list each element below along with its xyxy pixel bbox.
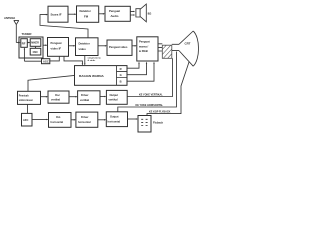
svg-text:TUNER: TUNER [22, 32, 33, 36]
wires audio amp to speaker [130, 11, 134, 15]
wire tuner to video IF amp [43, 44, 46, 46]
svg-text:Flyback: Flyback [153, 121, 164, 125]
wire v-driver to v-output [100, 96, 105, 98]
speaker [136, 4, 146, 22]
svg-text:Penguat: Penguat [109, 9, 120, 13]
horizontal oscillator box [49, 113, 72, 128]
svg-text:BAGIAN WARNA: BAGIAN WARNA [79, 74, 105, 78]
svg-text:& sinkr.: & sinkr. [88, 60, 96, 62]
svg-text:FM: FM [84, 14, 89, 18]
svg-text:vertikal: vertikal [80, 98, 89, 102]
wire RF to mixer [27, 42, 29, 44]
vertical oscillator box [48, 91, 69, 103]
svg-text:R: R [120, 67, 122, 71]
svg-text:Detektor: Detektor [79, 42, 91, 46]
video detector box [76, 38, 99, 56]
wire h-osc to h-driver [71, 119, 75, 121]
osc box [30, 48, 41, 55]
wire AGC to tuner [24, 60, 41, 62]
svg-text:KE YOKE VERTIKAL: KE YOKE VERTIKAL [139, 94, 163, 97]
svg-text:OSC: OSC [33, 51, 39, 54]
wire video detector to colour section [84, 56, 86, 65]
svg-text:& RGB: & RGB [139, 49, 148, 53]
svg-text:KE KOP FLYBACK: KE KOP FLYBACK [149, 111, 171, 114]
svg-text:Driver: Driver [81, 93, 89, 97]
vertical output box [106, 90, 127, 104]
svg-text:vertikal: vertikal [51, 97, 60, 101]
horizontal driver box [76, 112, 98, 127]
svg-text:ANTENA: ANTENA [4, 16, 15, 20]
svg-text:Detektor: Detektor [80, 9, 92, 13]
vertical driver box [78, 91, 100, 105]
wire video IF to AGC [50, 56, 60, 61]
wire AGC into tuner [23, 49, 25, 62]
RGB lines to CRT [158, 44, 162, 51]
mixer box [30, 39, 41, 47]
svg-text:Osl.: Osl. [56, 115, 61, 119]
audio amplifier box [105, 6, 130, 21]
wire antenna to tuner [16, 42, 19, 44]
flyback transformer box [138, 116, 151, 133]
svg-text:Suara IF: Suara IF [51, 12, 62, 16]
wire video amp to RGB amp [132, 45, 136, 47]
svg-text:horisontal: horisontal [51, 120, 64, 124]
matrix output column [117, 66, 128, 86]
svg-text:RF: RF [22, 41, 26, 45]
wire video IF to video detector [69, 45, 75, 47]
AFC box [22, 113, 33, 126]
wire h-driver to h-output [98, 119, 105, 121]
svg-text:vertikal: vertikal [109, 98, 118, 102]
svg-text:Driver: Driver [81, 115, 89, 119]
svg-text:Penguat: Penguat [139, 40, 150, 44]
sync separator box [18, 91, 41, 104]
svg-text:Output: Output [110, 93, 119, 97]
R line to RGB amp [127, 63, 139, 68]
svg-text:Audio: Audio [111, 14, 119, 18]
svg-text:video IF: video IF [51, 47, 62, 51]
svg-text:video: video [79, 47, 87, 51]
wire flyback to CRT anode [147, 62, 189, 116]
CRT neck [172, 44, 179, 50]
wire sync to AFC [27, 104, 29, 113]
CRT bell and face [179, 31, 199, 66]
svg-text:warna /: warna / [138, 44, 149, 48]
video IF amplifier box [48, 38, 69, 57]
tuner outer box [19, 37, 43, 58]
wire video detector to sound IF [40, 15, 88, 38]
deflection yoke [162, 45, 172, 58]
wire detector to video amp [98, 45, 106, 47]
sound IF box [48, 6, 68, 22]
svg-text:Penguat video: Penguat video [109, 45, 128, 49]
svg-text:CRT: CRT [185, 41, 191, 45]
wire vertical output to yoke [127, 58, 172, 96]
FM detector box [77, 6, 99, 22]
wire AFC to h-osc [32, 119, 47, 121]
RF box [21, 39, 28, 48]
B line to RGB amp [127, 63, 154, 81]
wire sound IF to FM detector [68, 13, 75, 15]
wire h-output to flyback [128, 118, 137, 120]
svg-text:Osc: Osc [55, 93, 60, 97]
wire colour section to sync separator [28, 75, 75, 91]
colour section box [75, 66, 128, 86]
wire horizontal output to yoke [118, 52, 177, 112]
svg-text:horisontal: horisontal [78, 120, 91, 124]
wire sync to vertical osc [41, 96, 47, 98]
antenna [14, 20, 19, 42]
AGC box [42, 59, 50, 64]
svg-text:Pemisah: Pemisah [19, 95, 29, 98]
svg-text:AFC: AFC [23, 118, 28, 122]
wire v-osc to v-driver [69, 96, 76, 98]
G line to RGB amp [127, 63, 147, 75]
svg-text:Output: Output [110, 114, 119, 118]
svg-text:B: B [120, 79, 122, 83]
svg-text:G: G [120, 73, 122, 77]
svg-text:KE YOKE HORISONTAL: KE YOKE HORISONTAL [136, 104, 164, 107]
wire osc to mixer [35, 47, 37, 48]
wire video IF to colour section [64, 56, 82, 64]
wire FM detector to audio amp [99, 13, 104, 15]
svg-text:Penguat: Penguat [51, 41, 62, 45]
svg-text:AGC: AGC [43, 60, 49, 64]
RGB colour amplifier box [137, 37, 158, 61]
horizontal output box [106, 112, 127, 127]
svg-text:MIXER: MIXER [31, 42, 39, 45]
video amplifier box [107, 40, 132, 55]
svg-text:sinkronisasi: sinkronisasi [19, 99, 33, 102]
svg-text:horisontal: horisontal [108, 119, 121, 123]
